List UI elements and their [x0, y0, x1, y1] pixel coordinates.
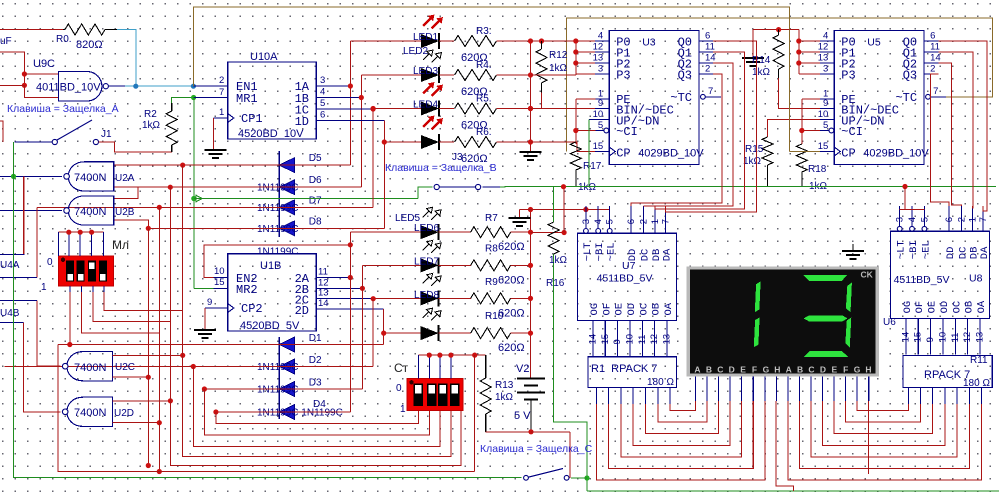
- svg-text:OA: OA: [663, 302, 675, 315]
- LED LED7: [421, 291, 439, 305]
- green arrow port: [196, 195, 202, 202]
- wire LED8 to R10: [439, 332, 471, 334]
- svg-text:11: 11: [705, 42, 715, 53]
- svg-text:12: 12: [649, 334, 660, 345]
- resistor R16: [548, 222, 559, 254]
- green vertical main: [193, 98, 195, 289]
- wire J1 right: [99, 142, 172, 152]
- wire D3 row: [204, 388, 362, 390]
- IC U3 box: [609, 31, 699, 165]
- svg-text:10: 10: [593, 109, 604, 120]
- U10A pin MR1 stub: [214, 97, 228, 99]
- wire vertical LED4: [383, 121, 385, 229]
- U5 pin ~CI stub: [820, 130, 829, 132]
- display pin wire L4: [741, 376, 743, 401]
- R11 pin wire 5: [968, 388, 970, 404]
- svg-text:DA: DA: [661, 248, 673, 261]
- wire to P pin: [576, 51, 596, 53]
- junction u1b2: [371, 296, 376, 301]
- wire v 2C: [372, 298, 374, 366]
- svg-text:12: 12: [962, 332, 973, 343]
- LED LED1: [421, 34, 439, 48]
- R11 pin wire 3: [944, 388, 946, 404]
- U8 pin OB: [967, 318, 969, 354]
- svg-text:1N1199C: 1N1199C: [257, 247, 299, 258]
- svg-text:4: 4: [598, 31, 603, 42]
- svg-text:CP: CP: [841, 147, 855, 161]
- wire R9 out: [511, 297, 531, 299]
- svg-text:LED7: LED7: [414, 257, 439, 268]
- wire LED3 row: [373, 108, 421, 110]
- svg-text:7400N: 7400N: [74, 206, 106, 218]
- IC U7 box: [578, 233, 677, 320]
- DIP St slot 1: [413, 384, 422, 407]
- gate U2A 7400N: [68, 162, 114, 191]
- U8 pin OD: [942, 318, 944, 354]
- svg-text:OE: OE: [614, 303, 626, 316]
- U3 pin ~TC stub: [701, 94, 706, 99]
- svg-text:LED4: LED4: [413, 100, 438, 111]
- DIP St dot: [409, 380, 413, 384]
- display pin wire R7: [868, 376, 870, 401]
- wire R11 to display 1: [799, 401, 969, 469]
- wire U9C output: [109, 85, 126, 87]
- wire St pin: [439, 355, 441, 379]
- svg-text:4011BD_10V: 4011BD_10V: [36, 82, 101, 94]
- resistor R6: [455, 137, 497, 148]
- junction: [573, 49, 578, 54]
- ground U1B: [194, 329, 216, 331]
- display pin wire L0: [695, 376, 697, 401]
- svg-text:11: 11: [930, 42, 940, 53]
- wire U4B in2: [0, 322, 24, 324]
- LED LED5: [421, 225, 439, 239]
- wire PE-CI U3: [575, 99, 577, 144]
- svg-text:620Ω: 620Ω: [498, 342, 525, 354]
- wire R1-4 to display: [646, 401, 719, 434]
- DIP Ml handle 3: [89, 263, 95, 270]
- svg-text:U5: U5: [867, 37, 881, 49]
- svg-text:10: 10: [937, 332, 948, 343]
- junction: [528, 296, 533, 301]
- wire drop D6: [170, 187, 461, 465]
- wire drop D7: [158, 207, 160, 471]
- R11 pin wire 6: [981, 388, 983, 404]
- svg-text:R2: R2: [144, 109, 157, 120]
- junction R12 bottom: [528, 106, 533, 111]
- display pin wire L7: [775, 376, 777, 401]
- svg-text:1kΩ: 1kΩ: [752, 67, 771, 78]
- U3 pin CP stub: [595, 151, 609, 153]
- wire U4A in2: [0, 277, 37, 279]
- LED LED8: [421, 326, 439, 340]
- wire R4 out: [497, 74, 531, 76]
- U7 pin DD: [630, 206, 632, 233]
- wire LED4 to R6: [439, 141, 454, 143]
- svg-text:10: 10: [624, 334, 635, 345]
- resistor R12: [536, 49, 547, 83]
- svg-text:5: 5: [919, 217, 930, 222]
- svg-text:4: 4: [823, 31, 828, 42]
- wire St rail: [418, 354, 485, 356]
- switch DIP St body: [407, 379, 463, 411]
- svg-text:OC: OC: [638, 303, 650, 316]
- svg-text:4: 4: [907, 217, 918, 222]
- junction D8: [146, 226, 151, 231]
- wire U3 Q0 to U7: [665, 41, 756, 212]
- display body: [690, 269, 876, 373]
- wire R7 out: [511, 231, 531, 233]
- DIP Ml handle 2: [78, 274, 84, 281]
- svg-text:7: 7: [708, 86, 713, 97]
- svg-text:J1: J1: [101, 129, 112, 140]
- diode cathode bar D1-D4: [278, 337, 280, 419]
- R11 pin wire 2: [932, 388, 934, 404]
- svg-text:2: 2: [639, 219, 650, 224]
- U3 pin ~CI stub: [595, 130, 604, 132]
- DIP Ml slot 3: [88, 261, 96, 282]
- svg-text:1kΩ: 1kΩ: [142, 120, 161, 131]
- segment d1 B: [755, 281, 761, 312]
- svg-text:3: 3: [598, 64, 603, 75]
- R1 pin wire 0: [595, 388, 597, 404]
- svg-text:LED6: LED6: [414, 223, 439, 234]
- svg-text:7: 7: [978, 217, 989, 222]
- U1B pin MR2 stub: [214, 287, 228, 289]
- wire LED1 to R3: [439, 40, 454, 42]
- svg-text:14: 14: [900, 332, 911, 343]
- wire U5 Q3 to U8: [930, 74, 949, 206]
- R11 pin wire 1: [920, 388, 922, 404]
- R11 pin wire 4: [956, 388, 958, 404]
- junction D4: [213, 409, 218, 414]
- battery V2: [517, 378, 545, 380]
- wire CP1 to ground: [213, 118, 215, 150]
- U3 pin Q2 stub: [699, 62, 713, 64]
- wire Ml pin3 path: [92, 286, 94, 292]
- svg-text:Мл: Мл: [112, 238, 129, 252]
- svg-text:6: 6: [705, 31, 710, 42]
- svg-text:R4.: R4.: [476, 60, 492, 71]
- svg-text:OF: OF: [914, 301, 926, 314]
- wire U4A in2 riser: [36, 207, 38, 277]
- wire row3 to pin9: [531, 108, 596, 110]
- U5 pin P2 stub: [820, 62, 834, 64]
- gate U2C 7400N: [67, 352, 113, 381]
- DIP St handle 2: [428, 385, 434, 394]
- wire LED2 to R4: [439, 74, 454, 76]
- gate U2D 7400N: [67, 397, 113, 426]
- display pin wire R4: [833, 376, 835, 401]
- IC U5 box: [834, 31, 924, 165]
- U3 pin UP/~DN stub: [595, 119, 609, 121]
- U10A out 1A stub: [316, 85, 330, 87]
- junction: [427, 353, 432, 358]
- svg-text:D3: D3: [309, 378, 322, 389]
- svg-text:OA: OA: [976, 300, 988, 313]
- R1 pin wire 4: [645, 388, 647, 404]
- wire J1 left: [14, 141, 52, 143]
- svg-text:LED2: LED2: [403, 46, 428, 57]
- wire to P pin U5: [799, 73, 820, 75]
- svg-text:DD: DD: [945, 247, 957, 260]
- junction LED4 row: [382, 139, 387, 144]
- DIP Ml slot 4: [99, 261, 107, 282]
- U1B out 2D stub: [316, 308, 330, 310]
- wire R1-3 to display: [633, 401, 730, 445]
- U3 pin BIN/~DEC stub: [595, 108, 609, 110]
- wire drop D8: [147, 228, 149, 465]
- IC U8 box: [891, 231, 990, 318]
- svg-text:~LT: ~LT: [582, 242, 594, 261]
- wire D4 row: [216, 411, 350, 413]
- svg-text:1kΩ: 1kΩ: [549, 63, 568, 74]
- display pin wire R3: [822, 376, 824, 401]
- svg-text:2D: 2D: [295, 304, 309, 318]
- wire 2C net: [330, 298, 373, 300]
- svg-text:4520BD_10V: 4520BD_10V: [238, 128, 304, 140]
- wire rail LED5 row ext: [531, 232, 565, 234]
- U5 pin P1 stub: [820, 51, 834, 53]
- svg-text:9: 9: [612, 339, 623, 344]
- wire brown A to CP U5: [789, 30, 791, 152]
- wire left edge stub: [0, 121, 3, 142]
- U5 pin BIN/~DEC stub: [820, 108, 834, 110]
- junction: [796, 60, 801, 65]
- DIP St slot 3: [438, 384, 447, 407]
- display pin wire R1: [798, 376, 800, 401]
- svg-text:CP: CP: [616, 147, 630, 161]
- svg-text:D1: D1: [309, 333, 322, 344]
- U7 pin OE: [617, 321, 619, 357]
- wire U2B in2 jog: [114, 220, 149, 228]
- wire to P pin U5: [799, 40, 820, 42]
- U1B EN2 wire: [204, 245, 350, 278]
- U3 pin PE stub: [595, 98, 609, 100]
- R1 pin wire 3: [632, 388, 634, 404]
- display pin wire R5: [845, 376, 847, 401]
- junction: [528, 263, 533, 268]
- junction R12 top: [539, 38, 544, 43]
- svg-text:U9C: U9C: [33, 58, 55, 70]
- wire row4 to CP: [531, 142, 596, 152]
- display pin wire R2: [810, 376, 812, 401]
- junction: [66, 230, 71, 235]
- wire Ml pin1 path: [69, 286, 71, 292]
- svg-text:R5.: R5.: [476, 94, 492, 105]
- wire R6 out: [497, 141, 531, 143]
- U7 pin OF: [604, 321, 606, 357]
- junction CI U5: [799, 128, 804, 133]
- svg-text:4: 4: [593, 219, 604, 224]
- gate U2B 7400N: [68, 196, 114, 225]
- junction: [89, 230, 94, 235]
- wire v 2D: [383, 309, 385, 344]
- svg-text:12: 12: [818, 42, 829, 53]
- svg-text:V2: V2: [516, 363, 529, 375]
- ground LED5-8: [508, 217, 530, 219]
- wire R8 out: [511, 264, 531, 266]
- wire U4B in1: [0, 300, 37, 302]
- svg-text:D: D: [820, 365, 826, 375]
- svg-text:H: H: [865, 365, 871, 375]
- wire R11 to display 2: [811, 401, 957, 457]
- U7 pin OC: [641, 321, 643, 357]
- display pin wire L2: [718, 376, 720, 401]
- DIP St handle 3: [439, 385, 445, 394]
- svg-text:D: D: [729, 365, 735, 375]
- svg-text:13: 13: [818, 53, 829, 64]
- svg-text:3: 3: [895, 217, 906, 222]
- junction u1b0: [348, 275, 353, 280]
- U7 pin DC: [643, 206, 645, 233]
- svg-text:14: 14: [705, 53, 716, 64]
- junction: [22, 83, 27, 88]
- U1B out 2C stub: [316, 298, 330, 300]
- svg-text:F: F: [752, 365, 757, 375]
- svg-text:Ст: Ст: [394, 361, 409, 375]
- svg-text:R6.: R6.: [476, 127, 492, 138]
- U3 pin P0 stub: [595, 40, 609, 42]
- svg-text:D2: D2: [309, 355, 322, 366]
- U7 pin OB: [654, 321, 656, 357]
- svg-text:U2C: U2C: [115, 362, 135, 373]
- wire U3 Q2 to U7: [644, 63, 734, 206]
- svg-text:~CI: ~CI: [616, 125, 638, 139]
- wire green to J3: [418, 187, 432, 199]
- wire rail top: [519, 209, 609, 211]
- wire to EN1: [193, 85, 213, 87]
- resistor R3: [455, 36, 497, 47]
- wire PE-CI U5: [801, 99, 803, 144]
- svg-text:LED3: LED3: [413, 66, 438, 77]
- wire brown top A: [193, 7, 789, 86]
- junction: [528, 106, 533, 111]
- ground display: [852, 244, 854, 251]
- op-amp U9C gate 4011: [59, 72, 102, 102]
- wire U9C input bottom: [0, 84, 24, 86]
- DIP Ml slot 2: [77, 261, 85, 282]
- svg-text:Клавиша = Защелка_B: Клавиша = Защелка_B: [385, 162, 497, 174]
- wire to MR1: [194, 97, 214, 99]
- U8 pin DB: [972, 206, 974, 231]
- svg-text:2: 2: [956, 217, 967, 222]
- svg-text:5: 5: [605, 219, 616, 224]
- wire D5 row: [114, 164, 351, 166]
- svg-text:OC: OC: [951, 301, 963, 314]
- wire LT rail U8: [900, 187, 905, 210]
- U8 pin ~LT: [899, 206, 901, 226]
- wire 1C net: [330, 108, 373, 110]
- junction: [448, 353, 453, 358]
- wire R1-0 to display: [596, 401, 765, 480]
- DIP Ml handle 1: [67, 274, 73, 281]
- U8 pin OC: [954, 318, 956, 354]
- wire D8 row: [148, 227, 384, 229]
- wire 1B net: [330, 97, 361, 99]
- wire U2C out: [37, 301, 61, 367]
- wire vertical LED1: [349, 41, 351, 165]
- segment d2 D: [804, 351, 849, 357]
- wire LED1 row: [350, 40, 421, 42]
- wire U3 Q1 to U7: [655, 52, 745, 209]
- svg-text:1N1199C: 1N1199C: [257, 362, 299, 373]
- wire 2D net: [330, 308, 384, 310]
- junction: [180, 353, 185, 358]
- svg-text:R0.: R0.: [56, 34, 72, 45]
- U7 pin DA: [664, 206, 666, 233]
- svg-text:0: 0: [396, 383, 402, 394]
- U3 pin Q0 stub: [699, 40, 713, 42]
- U5 pin PE stub: [820, 98, 834, 100]
- wire LED5 to R7: [439, 231, 471, 233]
- wire battery to switch: [569, 432, 571, 478]
- svg-text:D5: D5: [309, 153, 322, 164]
- junction green 905: [902, 184, 907, 189]
- junction: [146, 375, 151, 380]
- svg-text:Клавиша = Защелка_A: Клавиша = Защелка_A: [7, 103, 119, 115]
- svg-text:U7: U7: [622, 260, 636, 272]
- U8 pin DD: [948, 206, 950, 231]
- svg-text:R18: R18: [808, 164, 827, 175]
- wire Ml pin: [68, 232, 70, 256]
- svg-text:R7: R7: [485, 213, 498, 224]
- svg-text:D6: D6: [309, 175, 322, 186]
- resistor R9: [471, 293, 511, 304]
- diode cathode bar D5-D8: [278, 151, 280, 237]
- wire U3 Q3 to U7: [631, 74, 722, 206]
- U5 pin Q2 stub: [924, 62, 938, 64]
- wire R0 to node (teal): [117, 30, 136, 87]
- junction rail top: [583, 207, 588, 212]
- svg-text:U2B: U2B: [115, 207, 135, 218]
- wire P feed vertical U5: [798, 30, 800, 74]
- U5 pin P3 stub: [820, 73, 834, 75]
- junction: [573, 60, 578, 65]
- wire U4A in1: [0, 254, 24, 256]
- junction u1b1: [360, 286, 365, 291]
- wire green drop 554: [554, 254, 587, 491]
- U8 pin DC: [960, 206, 962, 231]
- wire R1-6 to display: [670, 401, 695, 411]
- svg-text:3: 3: [320, 75, 325, 86]
- wire D4 tail: [216, 411, 418, 424]
- junction D5: [180, 163, 185, 168]
- svg-text:DA: DA: [979, 246, 991, 259]
- junction battery: [528, 429, 533, 434]
- wire P feed vertical U3: [575, 41, 577, 74]
- svg-text:~TC: ~TC: [895, 91, 917, 105]
- svg-text:U2D: U2D: [114, 408, 134, 419]
- svg-text:7400N: 7400N: [74, 407, 106, 419]
- R1 pin wire 6: [669, 388, 671, 404]
- svg-text:D8: D8: [309, 216, 322, 227]
- wire Ml pin: [91, 232, 93, 256]
- svg-text:7: 7: [219, 87, 224, 98]
- DIP Ml slot 1: [66, 261, 74, 282]
- svg-text:F: F: [843, 365, 848, 375]
- svg-text:OD: OD: [939, 301, 951, 314]
- svg-text:P3: P3: [841, 69, 855, 83]
- IC U10A box: [228, 62, 317, 139]
- DIP Ml dot: [61, 258, 65, 262]
- svg-text:R9: R9: [485, 277, 498, 288]
- diode D4: [279, 405, 295, 420]
- wire D6 row: [114, 186, 362, 188]
- svg-text:1N1199C: 1N1199C: [257, 385, 299, 396]
- wire vertical LED2: [360, 75, 362, 187]
- svg-text:4029BD_10V: 4029BD_10V: [638, 148, 704, 160]
